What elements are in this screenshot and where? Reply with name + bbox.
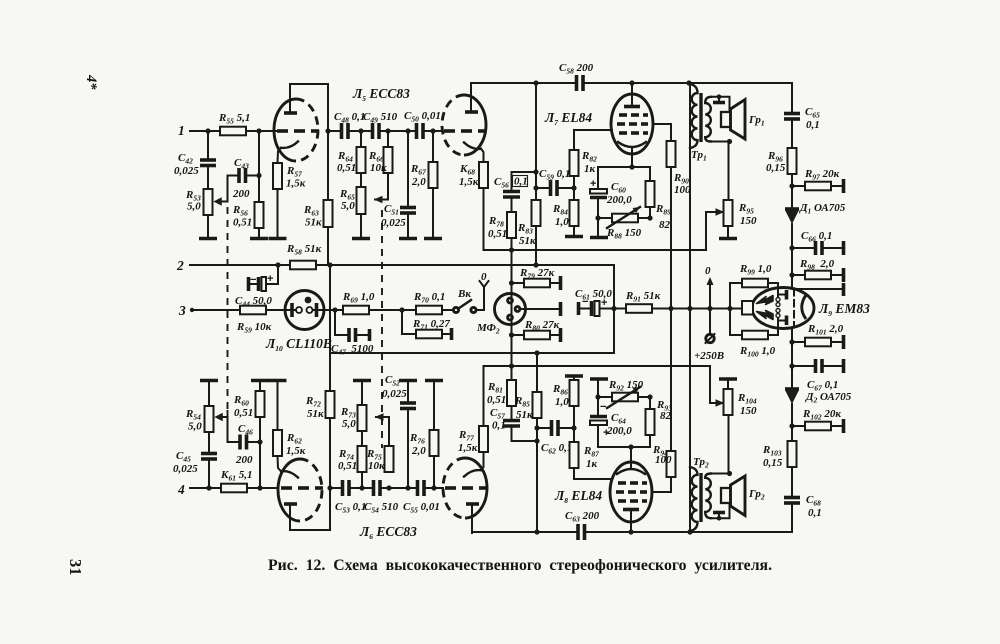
wire to R95 xyxy=(728,142,730,201)
svg-text:1,0: 1,0 xyxy=(555,216,569,228)
Л5a cathode xyxy=(281,142,298,148)
wire C48-C49 xyxy=(348,130,371,132)
resistor R78 xyxy=(511,197,513,212)
resistor R81 xyxy=(511,366,513,380)
Л6a plate xyxy=(284,502,297,506)
svg-text:Л5 ЕСС83: Л5 ЕСС83 xyxy=(352,86,410,103)
resistor R60 xyxy=(256,391,265,417)
wire R64-R65 xyxy=(360,173,362,187)
wire C49-C50 xyxy=(379,130,415,132)
chassis bar (C52) xyxy=(399,379,417,383)
svg-text:Д1 ОА705: Д1 ОА705 xyxy=(799,202,846,216)
node C52 xyxy=(405,485,410,490)
wire R91 to EM83 node xyxy=(652,308,730,310)
svg-text:4: 4 xyxy=(177,482,185,497)
svg-text:+: + xyxy=(590,178,596,190)
svg-text:0,51: 0,51 xyxy=(234,407,253,419)
R53 wiper arrow xyxy=(215,199,222,205)
capacitor C43 xyxy=(237,168,241,183)
wire R56 to ground xyxy=(258,228,260,237)
wire C50 to tube xyxy=(423,130,442,132)
svg-text:1к: 1к xyxy=(584,163,596,175)
svg-text:R92 150: R92 150 xyxy=(608,379,644,393)
svg-text:−: − xyxy=(600,401,606,413)
wire C47 stem xyxy=(335,310,347,335)
capacitor C56 xyxy=(503,190,520,194)
potentiometer R95 xyxy=(724,200,733,226)
capacitor C44 (electrolytic) xyxy=(257,277,261,291)
resistor R87 xyxy=(573,428,575,442)
pentode Л8 envelope xyxy=(610,462,652,522)
svg-text:0,025: 0,025 xyxy=(173,463,198,475)
svg-text:C47 5100: C47 5100 xyxy=(331,343,374,357)
chassis bar (R62) xyxy=(269,379,287,383)
svg-text:R80 27к: R80 27к xyxy=(524,319,560,333)
resistor R76 xyxy=(433,456,435,488)
wire C64 to chassis bar xyxy=(597,380,599,397)
wire line3 to R69 xyxy=(324,309,343,311)
svg-text:200: 200 xyxy=(232,188,250,200)
svg-text:0,025: 0,025 xyxy=(381,217,406,229)
switch Вк xyxy=(442,309,452,311)
capacitor C46 xyxy=(238,435,242,450)
wire input line 3 xyxy=(190,308,194,312)
node C59/R82/R84 xyxy=(571,185,576,190)
resistor R66 xyxy=(387,131,389,147)
svg-text:C58 200: C58 200 xyxy=(559,62,594,76)
resistor К68 (cathode Л5b) xyxy=(479,162,488,188)
svg-text:1: 1 xyxy=(178,123,185,138)
svg-text:10к: 10к xyxy=(368,460,385,472)
Гр1 bottom lead xyxy=(711,141,730,143)
svg-text:C50 0,01: C50 0,01 xyxy=(404,110,441,124)
svg-text:C54 510: C54 510 xyxy=(364,501,399,515)
capacitor C57 xyxy=(511,406,513,419)
resistor R58 xyxy=(290,261,316,270)
svg-text:1,5к: 1,5к xyxy=(458,442,478,454)
ground (R95) xyxy=(719,237,737,241)
diode Д1 xyxy=(785,210,799,224)
resistor R55 xyxy=(220,127,246,136)
wire R54 to top bar xyxy=(208,382,210,406)
EM83 top electrode line xyxy=(796,288,842,290)
node C46/R60 xyxy=(257,439,262,444)
svg-text:R91 51к: R91 51к xyxy=(625,290,661,304)
svg-text:3: 3 xyxy=(178,303,186,318)
Л8 screen lead to R94 xyxy=(652,477,671,492)
diode Д2 xyxy=(785,390,799,404)
resistor R97 xyxy=(792,185,805,187)
svg-text:C61 50,0: C61 50,0 xyxy=(575,288,612,302)
svg-text:82: 82 xyxy=(660,410,672,422)
Л5b plate xyxy=(465,110,478,114)
svg-text:C62 0,1: C62 0,1 xyxy=(541,442,572,456)
capacitor C48 xyxy=(340,123,344,139)
wire C45 stem xyxy=(208,461,210,488)
svg-text:+250В: +250В xyxy=(694,350,724,362)
Л8 plate xyxy=(623,508,639,512)
capacitor C50 xyxy=(415,123,419,139)
Тр2 secondary bottom lead xyxy=(711,503,730,518)
wire C51 column xyxy=(407,131,409,206)
Л5a grid dashes xyxy=(277,129,288,133)
divider vertical x537 (bottom) xyxy=(536,353,538,392)
node C43/R56 xyxy=(256,173,261,178)
ground (R57) xyxy=(269,237,287,241)
resistor R80 xyxy=(512,334,525,336)
svg-text:51к: 51к xyxy=(307,408,324,420)
resistor R83 xyxy=(532,200,541,226)
wire R56 column xyxy=(258,131,260,202)
svg-text:4*: 4* xyxy=(83,74,99,90)
capacitor C58 xyxy=(575,75,579,91)
potentiometer R53 xyxy=(204,189,213,215)
speaker Гр2 xyxy=(721,488,731,503)
capacitor C52 xyxy=(400,407,416,411)
capacitor C59 xyxy=(536,187,549,189)
wire Д1 down xyxy=(791,224,793,275)
resistor R86 xyxy=(573,406,575,428)
cathode node line xyxy=(598,166,650,168)
R73 wiper from R75 xyxy=(376,417,389,446)
capacitor C45 xyxy=(201,457,217,461)
connector МФ2 envelope xyxy=(495,294,526,325)
svg-text:1,5к: 1,5к xyxy=(286,178,306,190)
svg-text:R58 51к: R58 51к xyxy=(286,243,322,257)
triode Л6b envelope xyxy=(465,458,487,518)
Тр2 secondary xyxy=(705,474,711,519)
potentiometer R73 xyxy=(361,472,363,488)
node R74 xyxy=(359,485,364,490)
svg-text:R88 150: R88 150 xyxy=(606,227,642,241)
resistor R89 xyxy=(649,167,651,181)
R65 wiper from R66 xyxy=(375,173,388,200)
svg-text:0,51: 0,51 xyxy=(488,228,507,240)
secondary chassis bar xyxy=(718,514,720,518)
Тр1 secondary top lead xyxy=(711,97,730,112)
wire C55 to tube xyxy=(424,487,443,489)
resistor R91 xyxy=(614,308,626,310)
speaker Гр1 xyxy=(721,112,731,127)
svg-text:C59 0,1: C59 0,1 xyxy=(539,168,570,182)
svg-text:2,0: 2,0 xyxy=(411,445,426,457)
wire R62 to top bar xyxy=(277,382,279,430)
gang dashed link R53-R54 xyxy=(227,207,229,410)
Тр1 secondary xyxy=(705,97,711,142)
node C46 column xyxy=(257,485,262,490)
ground (R65) xyxy=(352,237,370,241)
ground (R67) xyxy=(424,237,442,241)
node R66 xyxy=(385,128,390,133)
chassis bar (R76) xyxy=(425,379,443,383)
chassis bar (R73) xyxy=(353,379,371,383)
Л8 grids xyxy=(616,483,647,501)
svg-text:R59 10к: R59 10к xyxy=(236,321,272,335)
resistor R94 xyxy=(667,451,676,477)
resistor R82 xyxy=(570,150,579,176)
vertical link cathode line to МФ2 xyxy=(511,250,513,379)
switch output terminal 0 xyxy=(476,287,484,310)
svg-text:82: 82 xyxy=(659,219,671,231)
svg-text:0,1: 0,1 xyxy=(808,507,822,519)
capacitor C64 (electrolytic) xyxy=(597,425,599,447)
node R71 xyxy=(399,307,404,312)
chassis bar (R60) xyxy=(251,379,269,383)
shield box xyxy=(329,265,331,353)
Л6b cathode xyxy=(464,470,481,476)
svg-text:5,0: 5,0 xyxy=(342,418,356,430)
wire R84 to ground xyxy=(573,226,575,235)
wire R57 to ground xyxy=(277,189,279,237)
tube Л9 EM83 envelope xyxy=(752,288,814,329)
МФ2 middle pin lead xyxy=(520,308,559,310)
capacitor C53 xyxy=(341,480,345,496)
triode Л5b envelope xyxy=(464,95,486,155)
svg-text:100: 100 xyxy=(655,454,672,466)
Л10 top cathode dot xyxy=(305,297,312,304)
svg-text:C53 0,1: C53 0,1 xyxy=(335,501,366,515)
R54 wiper arrow xyxy=(216,414,223,420)
Л7 grids xyxy=(617,115,648,133)
svg-text:R79 27к: R79 27к xyxy=(519,267,555,281)
node R58/R63/box xyxy=(327,262,332,267)
wire C43 right lead xyxy=(246,175,260,177)
wire R77 to feedback line xyxy=(483,366,485,426)
wire Д2 to R102 xyxy=(791,404,793,441)
svg-text:0,15: 0,15 xyxy=(763,457,783,469)
capacitor C47 xyxy=(347,328,351,342)
Гр2 top lead xyxy=(711,473,730,475)
bottom supply rail xyxy=(472,531,577,533)
resistor R98 xyxy=(789,272,794,277)
wire C42 to R53 xyxy=(207,166,209,190)
resistor R59 xyxy=(240,306,266,315)
node R64 xyxy=(358,128,363,133)
Л9 grid pin box xyxy=(730,308,742,310)
svg-text:0,025: 0,025 xyxy=(382,388,407,400)
svg-text:Вк: Вк xyxy=(457,288,471,300)
resistor R102 xyxy=(792,425,805,427)
capacitor C66 xyxy=(792,247,814,249)
resistor R103 xyxy=(788,441,797,467)
variable resistor R92 xyxy=(598,396,612,398)
Л5b grid dashes xyxy=(444,129,455,133)
Л9 target arc xyxy=(802,295,806,319)
svg-text:1,5к: 1,5к xyxy=(286,445,306,457)
capacitor C61 (electrolytic) xyxy=(577,302,581,315)
Л5a plate xyxy=(284,111,297,115)
wire R95 to ground xyxy=(727,226,729,237)
svg-text:R71 0,27: R71 0,27 xyxy=(412,318,450,332)
wire К68 to feedback line xyxy=(483,188,485,250)
Л9 beam arrows xyxy=(757,296,774,305)
svg-text:200: 200 xyxy=(235,454,253,466)
wire Л5a plate rail xyxy=(290,84,328,128)
wire R60 column xyxy=(259,417,261,488)
svg-text:0,1: 0,1 xyxy=(492,420,506,432)
wire C65 to R96 xyxy=(791,119,793,148)
svg-text:31: 31 xyxy=(66,559,85,576)
ground (C51) xyxy=(399,237,417,241)
wire C44 stub xyxy=(266,265,278,284)
svg-text:C63 200: C63 200 xyxy=(565,510,600,524)
svg-text:Л10 CL110В: Л10 CL110В xyxy=(265,336,332,353)
terminal 0 with arrow xyxy=(709,285,711,309)
svg-text:0,1: 0,1 xyxy=(806,119,820,131)
resistor R79 xyxy=(512,282,525,284)
wire input line 1 xyxy=(190,130,220,132)
svg-text:51к: 51к xyxy=(516,409,533,421)
Л7 cathode xyxy=(618,142,646,147)
svg-text:0: 0 xyxy=(705,265,711,277)
svg-text:C66 0,1: C66 0,1 xyxy=(801,230,832,244)
resistor R77 (cathode Л6b) xyxy=(479,426,488,452)
R73 to top bar xyxy=(361,382,363,405)
svg-text:2,0: 2,0 xyxy=(411,176,426,188)
svg-text:10к: 10к xyxy=(370,162,387,174)
node C45 column xyxy=(206,485,211,490)
svg-text:+: + xyxy=(267,273,273,285)
wire R60 to top bar xyxy=(259,382,261,391)
node plate/C48 xyxy=(325,128,330,133)
svg-text:100: 100 xyxy=(674,184,691,196)
resistor R71 xyxy=(416,330,442,339)
svg-text:R97 20к: R97 20к xyxy=(804,168,840,182)
svg-text:Л6 ЕСС83: Л6 ЕСС83 xyxy=(359,524,417,541)
wire C43 left lead xyxy=(222,176,237,202)
wire R82 to Л7 grid xyxy=(574,130,612,150)
Тр1 core xyxy=(699,93,702,142)
capacitor C60 (electrolytic) xyxy=(597,167,599,189)
svg-text:C48 0,1: C48 0,1 xyxy=(334,111,365,125)
wire input line 4 xyxy=(190,487,221,489)
wire R87 to Л8 grid xyxy=(574,468,611,479)
resistor R74 xyxy=(358,446,367,472)
Л10 right pin xyxy=(307,307,313,313)
feedback line (bottom) xyxy=(484,365,711,367)
svg-text:200,0: 200,0 xyxy=(606,425,632,437)
wire to R104 xyxy=(728,415,730,474)
svg-text:0,51: 0,51 xyxy=(487,394,506,406)
svg-text:1к: 1к xyxy=(586,458,598,470)
wire R76 to top bar xyxy=(433,382,435,430)
Л8 cathode xyxy=(617,469,645,474)
ground (R84) xyxy=(565,235,583,239)
svg-text:Л7 EL84: Л7 EL84 xyxy=(544,110,592,127)
screen divider vertical (x536) xyxy=(535,83,537,200)
capacitor C65 xyxy=(784,112,800,116)
wire C51 to ground xyxy=(407,213,409,237)
gang dashed link R65-R75 xyxy=(381,210,383,448)
Л9 electrode circles xyxy=(777,289,779,297)
svg-text:200,0: 200,0 xyxy=(606,194,632,206)
variable resistor R88 xyxy=(598,217,612,219)
capacitor C63 xyxy=(576,524,580,540)
svg-text:0,51: 0,51 xyxy=(233,217,252,229)
cathode node line (bottom) xyxy=(598,446,650,448)
svg-text:2: 2 xyxy=(176,258,184,273)
ground (R53) xyxy=(199,237,217,241)
node R76 xyxy=(431,485,436,490)
wire R86 to chassis bar xyxy=(573,377,575,380)
capacitor C68 xyxy=(784,496,800,500)
resistor R96 xyxy=(788,148,797,174)
secondary chassis bar xyxy=(718,97,720,101)
svg-text:0,1: 0,1 xyxy=(514,176,528,188)
svg-text:1,5к: 1,5к xyxy=(459,176,479,188)
feedback line (top) xyxy=(484,249,707,251)
wire C52 column xyxy=(407,410,409,488)
pentode Л7 envelope xyxy=(611,94,653,154)
resistor R72 xyxy=(329,418,331,488)
wire R103 to C68 xyxy=(791,467,793,496)
svg-text:К61 5,1: К61 5,1 xyxy=(220,469,252,483)
Л6b grid dashes xyxy=(445,486,456,490)
C57 bottom lead to x537 xyxy=(512,426,538,441)
resistor R69 xyxy=(343,306,369,315)
triode U Л5a envelope xyxy=(274,99,296,161)
Л6a cathode xyxy=(281,471,298,477)
Л10 left pin xyxy=(285,309,296,311)
node R67 xyxy=(430,128,435,133)
resistor R57 xyxy=(273,163,282,189)
right column rail xyxy=(791,83,793,112)
svg-text:Д2 ОА705: Д2 ОА705 xyxy=(805,391,852,405)
wire C52 to top bar xyxy=(407,382,409,403)
Тр2 core xyxy=(699,473,702,522)
ground (R56) xyxy=(250,237,268,241)
node Л6a plate / C53 xyxy=(327,485,332,490)
svg-text:R55 5,1: R55 5,1 xyxy=(218,112,250,126)
wire R71 branch xyxy=(402,310,416,334)
wire C54-C55 xyxy=(380,487,416,489)
capacitor C42 xyxy=(200,158,216,162)
node at C42 column xyxy=(205,128,210,133)
resistor R99 xyxy=(730,283,742,309)
svg-text:Рис. 12. Схема высококачест: Рис. 12. Схема высококачественного стере… xyxy=(268,557,772,574)
wire C48 link xyxy=(328,130,340,132)
svg-text:0,51: 0,51 xyxy=(338,460,357,472)
svg-text:150: 150 xyxy=(740,405,757,417)
chassis bar (R54) xyxy=(200,379,218,383)
Л6a grid dashes xyxy=(281,486,292,490)
svg-text:5,0: 5,0 xyxy=(188,421,202,433)
resistor R93 xyxy=(649,397,651,409)
wire R96 down xyxy=(791,174,793,209)
wire R104 to chassis bar xyxy=(727,380,729,389)
svg-text:5,0: 5,0 xyxy=(341,200,355,212)
wire R101 to C67 xyxy=(791,342,793,388)
svg-text:0,025: 0,025 xyxy=(174,165,199,177)
wire C53-C54 xyxy=(349,487,372,489)
svg-text:150: 150 xyxy=(740,215,757,227)
terminal +250В xyxy=(709,309,711,335)
resistor R70 xyxy=(416,306,442,315)
resistor R61 xyxy=(221,484,247,493)
svg-text:R69 1,0: R69 1,0 xyxy=(342,291,375,305)
wire R67 to ground xyxy=(432,188,434,237)
svg-text:51к: 51к xyxy=(305,217,322,229)
node C51 xyxy=(405,128,410,133)
wire R53 to ground xyxy=(207,215,209,237)
svg-text:5,0: 5,0 xyxy=(187,201,201,213)
wire C46 right lead xyxy=(247,441,261,443)
rail x690 down xyxy=(689,83,691,532)
resistor R62 xyxy=(273,430,282,456)
transformer Тр1 primary xyxy=(690,84,698,148)
capacitor C62 xyxy=(537,427,550,429)
resistor R101 xyxy=(789,339,794,344)
